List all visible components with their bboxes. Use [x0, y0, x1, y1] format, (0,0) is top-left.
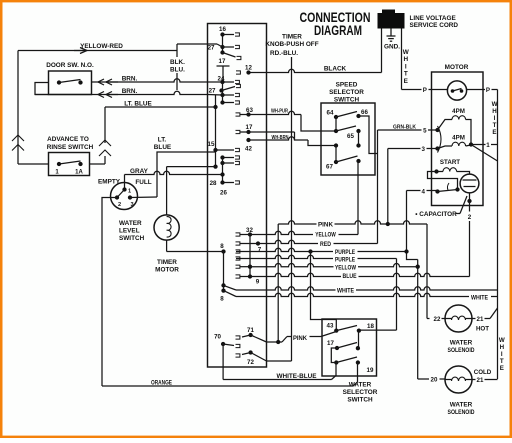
svg-text:H: H: [403, 56, 408, 63]
svg-text:LEVEL: LEVEL: [119, 228, 140, 235]
wire motor4 vertical: [406, 191, 408, 252]
svg-text:4: 4: [421, 189, 425, 196]
svg-text:COLD: COLD: [474, 369, 492, 376]
svg-text:WHITE: WHITE: [471, 295, 488, 302]
wire 1: [471, 144, 498, 146]
svg-text:8: 8: [220, 296, 224, 303]
svg-text:BRN.: BRN.: [122, 76, 138, 83]
svg-text:64: 64: [327, 110, 334, 117]
svg-text:21: 21: [477, 377, 484, 384]
node timer motor feed: [213, 164, 217, 168]
svg-text:RD.-BLU.: RD.-BLU.: [270, 50, 298, 57]
wire speed to yellow: [357, 161, 359, 235]
svg-text:PURPLE: PURPLE: [335, 256, 355, 263]
wire BRN 1: [92, 79, 208, 82]
svg-text:HOT: HOT: [476, 326, 489, 333]
svg-text:WHITE-BLUE: WHITE-BLUE: [276, 373, 317, 380]
wire water level 2 orange: [102, 198, 117, 387]
timer bus: [222, 35, 224, 54]
wire BLACK: [249, 69, 382, 72]
timer T contact: [217, 65, 230, 67]
svg-text:RINSE SWITCH: RINSE SWITCH: [47, 144, 94, 151]
wire BRN 2: [35, 91, 208, 94]
svg-text:WATER: WATER: [119, 220, 142, 227]
svg-text:SPEED: SPEED: [336, 82, 358, 89]
svg-text:BLUE: BLUE: [154, 144, 172, 151]
timer contact row a: [220, 155, 224, 159]
timer bus 8: [223, 252, 225, 291]
wire white right vertical: [497, 90, 499, 380]
motor terminal 5: [432, 129, 438, 131]
water sel 18 link: [358, 331, 360, 349]
timer bus segment: [222, 82, 224, 103]
svg-text:GND.: GND.: [384, 44, 400, 51]
svg-text:7: 7: [258, 247, 262, 254]
svg-text:• CAPACITOR: • CAPACITOR: [415, 211, 457, 218]
svg-text:P: P: [423, 87, 427, 94]
motor protector: [447, 81, 466, 100]
svg-text:66: 66: [361, 109, 368, 116]
svg-text:28: 28: [210, 180, 217, 187]
water sel 17 bracket: [331, 348, 337, 363]
capacitor terminal 2: [467, 199, 471, 203]
svg-text:5: 5: [423, 128, 427, 135]
wire 18 right: [360, 329, 397, 331]
wire to contact 27: [177, 43, 217, 45]
wire pink vertical left: [277, 224, 279, 342]
wire 72 to rd-blu: [267, 360, 292, 362]
svg-text:15: 15: [208, 141, 215, 148]
svg-text:17: 17: [327, 340, 334, 347]
svg-text:67: 67: [326, 164, 333, 171]
svg-text:70: 70: [214, 334, 221, 341]
svg-text:SOLENOID: SOLENOID: [448, 347, 475, 354]
svg-text:I: I: [501, 351, 503, 358]
svg-text:27: 27: [209, 88, 216, 95]
svg-text:E: E: [404, 78, 409, 85]
svg-text:17: 17: [246, 124, 253, 131]
svg-text:PURPLE: PURPLE: [335, 249, 355, 256]
svg-text:WATER: WATER: [450, 340, 473, 347]
svg-text:2: 2: [118, 202, 121, 208]
svg-text:WATER: WATER: [349, 382, 372, 389]
svg-text:DIAGRAM: DIAGRAM: [314, 22, 362, 38]
svg-text:W: W: [492, 101, 498, 108]
svg-text:1A: 1A: [75, 170, 83, 176]
timer contact 7: [256, 241, 260, 245]
wire P right: [467, 89, 498, 91]
svg-text:BLU.: BLU.: [170, 67, 185, 74]
motor start blade: [435, 189, 439, 193]
timer contact 8b: [221, 283, 225, 287]
svg-text:SWITCH: SWITCH: [119, 235, 145, 242]
svg-text:START: START: [440, 159, 460, 166]
svg-text:BRN.: BRN.: [122, 88, 138, 95]
svg-text:SOLENOID: SOLENOID: [448, 409, 475, 416]
motor switch: [435, 128, 439, 132]
svg-text:W: W: [403, 49, 410, 56]
timer contact brn2: [220, 93, 224, 97]
svg-text:43: 43: [327, 323, 334, 330]
wire motor3 vertical: [387, 149, 389, 225]
svg-text:20: 20: [431, 377, 438, 384]
svg-text:I: I: [405, 63, 407, 70]
svg-text:YELLOW: YELLOW: [315, 232, 336, 239]
timer contact lt-blue row: [220, 100, 224, 104]
timer contact 72: [248, 350, 252, 354]
svg-text:LT.: LT.: [158, 137, 167, 144]
svg-text:42: 42: [245, 146, 252, 153]
svg-text:3: 3: [130, 202, 133, 208]
timer bus segment c: [222, 158, 224, 184]
svg-text:SWITCH: SWITCH: [347, 397, 373, 404]
svg-text:YELLOW-RED: YELLOW-RED: [80, 43, 123, 50]
svg-text:T: T: [404, 71, 408, 78]
svg-text:PINK: PINK: [318, 222, 334, 229]
svg-text:PINK: PINK: [293, 335, 307, 342]
wire 66 to right exit: [359, 116, 378, 154]
wire down to 43: [311, 252, 337, 331]
svg-text:E: E: [492, 129, 496, 136]
wire white from cord: [401, 29, 403, 90]
svg-text:P: P: [486, 87, 490, 94]
wire left vertical: [17, 51, 19, 165]
svg-text:2: 2: [468, 214, 472, 221]
svg-text:17: 17: [219, 58, 226, 65]
hot water solenoid: [427, 318, 445, 320]
svg-text:21: 21: [477, 316, 484, 323]
svg-text:DOOR SW. N.O.: DOOR SW. N.O.: [46, 62, 94, 69]
svg-text:TIMER: TIMER: [157, 259, 177, 266]
svg-text:KNOB-PUSH OFF: KNOB-PUSH OFF: [265, 41, 318, 48]
timer contact yellow2: [248, 265, 252, 269]
timer blade 71: [251, 335, 267, 342]
wire purple jog to cold: [407, 252, 418, 260]
svg-text:9: 9: [256, 279, 260, 286]
wire P left: [402, 89, 448, 91]
timer contact purple1: [236, 250, 240, 253]
timer contact row b: [220, 161, 224, 165]
svg-text:ADVANCE TO: ADVANCE TO: [47, 136, 89, 143]
svg-text:MOTOR: MOTOR: [155, 267, 179, 274]
timer blade: [220, 50, 224, 54]
svg-text:1: 1: [128, 189, 131, 195]
wire 17b down: [249, 131, 295, 133]
svg-text:SELECTOR: SELECTOR: [343, 389, 378, 396]
wire rinse right: [90, 163, 106, 165]
svg-text:RED: RED: [320, 241, 331, 248]
wire 1 diagonal: [471, 145, 498, 162]
svg-text:WH-PUR: WH-PUR: [271, 109, 289, 115]
svg-text:26: 26: [220, 190, 227, 197]
svg-text:18: 18: [367, 323, 374, 330]
wire grn-blk vertical: [377, 130, 379, 244]
timer contact 9: [248, 274, 252, 278]
wire blk-blu vertical: [176, 44, 178, 57]
svg-text:72: 72: [247, 359, 254, 366]
svg-text:E: E: [500, 365, 504, 372]
ground symbol: [390, 29, 392, 37]
svg-text:3: 3: [421, 146, 425, 153]
svg-text:T: T: [500, 358, 504, 365]
svg-text:I: I: [494, 115, 496, 122]
svg-text:BLACK: BLACK: [324, 66, 347, 73]
svg-text:4PM: 4PM: [452, 108, 465, 115]
svg-text:MOTOR: MOTOR: [445, 64, 469, 71]
timer motor: [167, 166, 216, 168]
arrow: [80, 48, 87, 54]
svg-text:TIMER: TIMER: [282, 34, 302, 41]
wire start loop: [428, 172, 458, 190]
svg-text:YELLOW: YELLOW: [335, 265, 356, 272]
timer contact purple2: [236, 257, 240, 260]
svg-text:27: 27: [208, 45, 215, 52]
svg-text:1: 1: [486, 142, 490, 149]
svg-text:LINE VOLTAGE: LINE VOLTAGE: [410, 15, 457, 22]
line voltage service cord: [378, 13, 405, 29]
svg-text:65: 65: [347, 133, 354, 140]
svg-text:FULL: FULL: [135, 179, 151, 186]
timer blade 72: [251, 353, 267, 362]
water selector switch: [322, 319, 377, 376]
timer contact gray: [220, 172, 224, 176]
capacitor: [457, 172, 470, 175]
wire pink to hot 22: [426, 224, 428, 319]
timer bus b: [215, 95, 217, 167]
svg-text:4PM: 4PM: [452, 135, 465, 142]
wire purple2 to water sel 18: [396, 259, 398, 331]
wire YELLOW-RED: [18, 50, 177, 52]
motor terminal 3: [388, 148, 438, 150]
svg-text:BLK.: BLK.: [170, 59, 185, 66]
svg-text:8: 8: [220, 243, 224, 250]
svg-text:BLUE: BLUE: [343, 273, 357, 280]
svg-text:T: T: [493, 122, 497, 129]
svg-text:22: 22: [434, 316, 441, 323]
wire full: [130, 196, 157, 199]
svg-text:WHITE: WHITE: [337, 288, 354, 295]
svg-text:H: H: [492, 108, 497, 115]
wire door loop: [35, 83, 49, 95]
wire rinse left: [18, 163, 49, 165]
svg-text:ORANGE: ORANGE: [151, 379, 172, 386]
timer box: [208, 24, 267, 368]
svg-text:WATER: WATER: [450, 402, 473, 409]
wire rd-blu vertical: [291, 57, 293, 361]
svg-text:H: H: [500, 344, 505, 351]
svg-text:19: 19: [367, 367, 374, 374]
svg-text:SERVICE CORD: SERVICE CORD: [410, 22, 459, 29]
svg-text:16: 16: [219, 26, 226, 33]
node chevrons: [104, 107, 106, 143]
svg-text:W: W: [499, 337, 505, 344]
svg-text:SELECTOR: SELECTOR: [329, 89, 364, 96]
